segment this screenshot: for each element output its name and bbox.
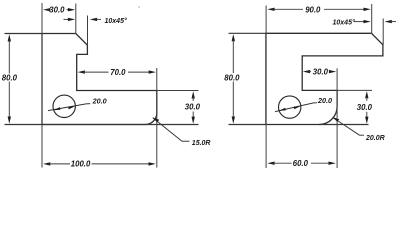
dim 60.0 bottom right-drawing	[267, 162, 336, 165]
dim 100.0 bottom left	[43, 162, 156, 165]
extension line left-edge vertical x=42	[41, 3, 43, 168]
extension top edge to left (right drawing)	[229, 32, 266, 34]
speck artifact	[138, 6, 139, 7]
svg-text:80.0: 80.0	[2, 73, 18, 82]
dim 70.0 notch left	[78, 70, 156, 73]
extension line left edge right-drawing x=266	[265, 6, 267, 169]
svg-text:100.0: 100.0	[71, 159, 91, 168]
radius leader 15.0R left	[152, 117, 189, 141]
svg-text:20.0R: 20.0R	[365, 135, 385, 142]
svg-text:60.0: 60.0	[293, 159, 309, 168]
dim 80.0 right-drawing	[232, 34, 235, 124]
extension line right edge x=156.8	[156, 68, 158, 168]
chamfer callout 10x45 right	[354, 20, 396, 23]
bottom line y=124.5 full	[5, 124, 199, 126]
svg-text:90.0: 90.0	[305, 5, 321, 14]
svg-text:30.0: 30.0	[357, 103, 373, 112]
dim 30.0 far right	[365, 91, 368, 124]
hole circle left	[53, 95, 75, 117]
extension notch bottom right to x=372	[337, 89, 372, 91]
dim 90.0 top right-drawing	[267, 8, 371, 11]
bottom line under arc to right ext	[319, 124, 368, 126]
svg-text:30.0: 30.0	[49, 5, 65, 14]
dim 30.0 notch right-drawing	[303, 70, 336, 73]
extension line x=87.5 chamfer	[87, 16, 89, 46]
extension notch bottom to right	[157, 90, 199, 92]
extension right lower edge x=337.1	[336, 68, 338, 168]
extension line top edge to left	[5, 33, 43, 35]
hole diameter leader left	[48, 104, 90, 111]
extension line x=75.8 above top	[75, 4, 77, 34]
hole diameter leader right	[275, 103, 317, 112]
dim 80.0 left	[8, 34, 11, 124]
svg-text:30.0: 30.0	[185, 102, 201, 111]
hole circle right	[279, 96, 301, 118]
extension bottom edge (right drawing)	[229, 124, 266, 126]
part outline left	[42, 34, 157, 125]
svg-text:15.0R: 15.0R	[192, 140, 211, 147]
chamfer callout 10x45 left	[64, 18, 102, 21]
radius leader 20.0R right	[332, 117, 364, 135]
svg-text:30.0: 30.0	[313, 68, 329, 77]
dim 30.0 top-left	[43, 8, 75, 11]
svg-text:80.0: 80.0	[224, 73, 240, 82]
svg-text:70.0: 70.0	[110, 68, 126, 77]
part outline right	[266, 33, 383, 124]
dim 30.0 right-of-left-part	[192, 91, 195, 124]
svg-text:10x45°: 10x45°	[333, 19, 355, 27]
extension line x=383.2 chamfer	[382, 19, 384, 45]
svg-text:10x45°: 10x45°	[105, 17, 127, 25]
extension line x=371.7 top	[371, 4, 373, 33]
svg-text:20.0: 20.0	[92, 96, 107, 105]
svg-text:20.0: 20.0	[317, 96, 332, 105]
